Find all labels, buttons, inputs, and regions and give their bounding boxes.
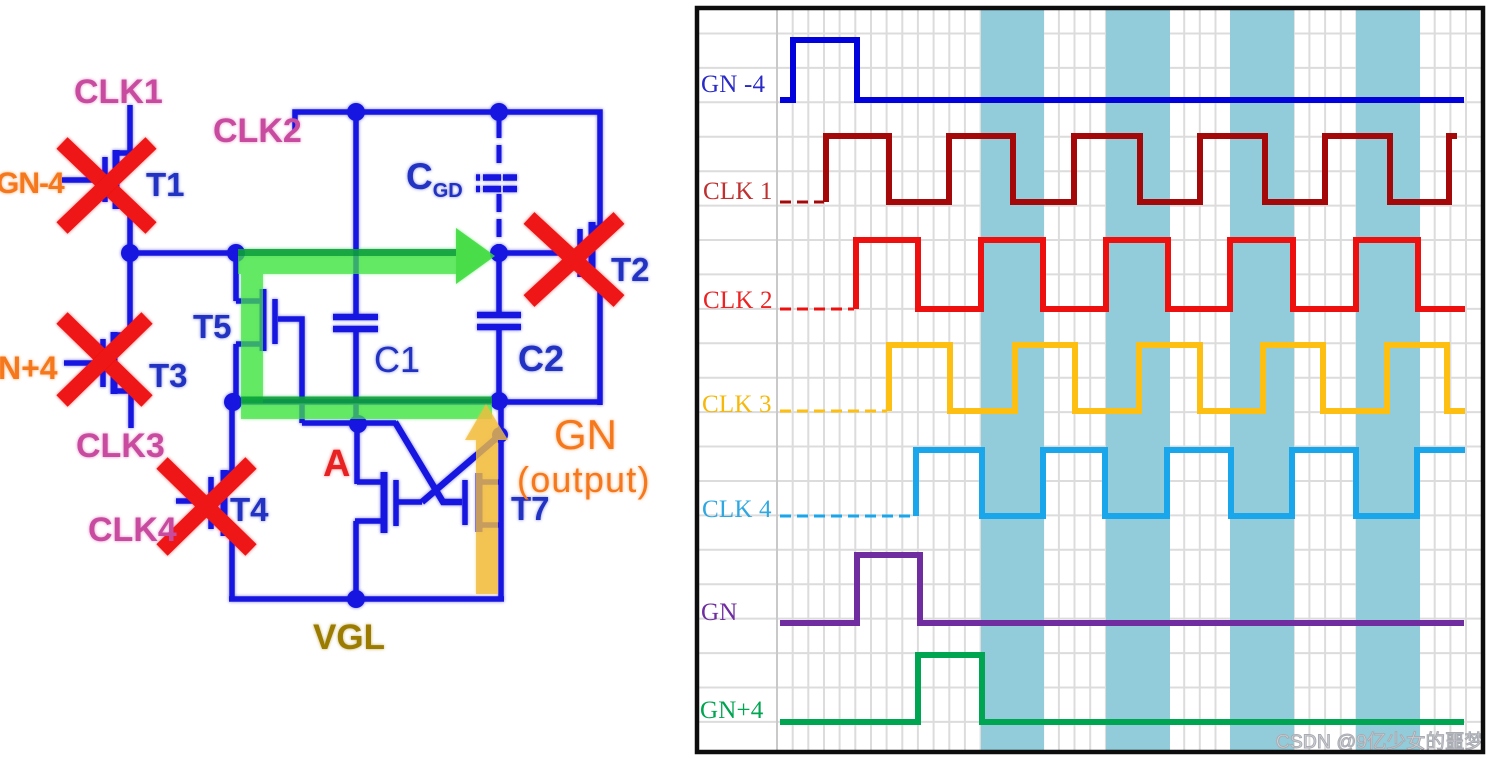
svg-text:C2: C2 (518, 338, 564, 379)
wire left column to T4 (229, 402, 235, 477)
node GN output (490, 392, 508, 410)
green highlight path (238, 256, 492, 419)
node top C1 (347, 103, 365, 121)
transistor T7 (476, 473, 483, 532)
node top CGD (490, 103, 508, 121)
transistor T1 (113, 150, 120, 209)
capacitor C1 top wire (353, 112, 359, 314)
svg-text:T4: T4 (230, 491, 269, 528)
capacitor CGD dashed wire top (497, 120, 502, 168)
GN-4 waveform (780, 40, 1464, 100)
wire T6 source to rail (353, 521, 359, 601)
node A (349, 415, 367, 433)
svg-text:GN -4: GN -4 (701, 71, 765, 98)
highlight bands (981, 10, 1044, 751)
svg-text:GN: GN (701, 599, 738, 626)
capacitor C2 top wire (496, 253, 502, 312)
panel border (697, 8, 1483, 752)
wire T1/T3 column (127, 253, 133, 336)
wire T3 gate stub (N+4) (64, 360, 100, 366)
capacitor C2 (477, 312, 521, 319)
transistor T4 (221, 470, 228, 536)
wire node row left (130, 250, 239, 256)
node CLK1/T1-T3 (121, 244, 139, 262)
CLK1 waveform (780, 201, 824, 204)
svg-text:T5: T5 (193, 308, 232, 345)
svg-text:CLK1: CLK1 (74, 73, 163, 111)
svg-text:CLK3: CLK3 (76, 427, 165, 465)
svg-text:CLK2: CLK2 (213, 112, 302, 150)
svg-text:N+4: N+4 (0, 350, 58, 386)
transistor T5 (260, 289, 267, 351)
red X over T4 (162, 463, 251, 550)
capacitor C1 (333, 314, 378, 321)
wire T4 to VGL rail (229, 533, 235, 601)
svg-text:T2: T2 (611, 251, 650, 288)
capacitor C1 bottom wire (353, 329, 359, 423)
svg-text:CLK 1: CLK 1 (703, 178, 773, 205)
wire node row to T2 gate (499, 250, 577, 256)
svg-text:T1: T1 (146, 166, 185, 203)
svg-text:T3: T3 (149, 357, 188, 394)
svg-text:GN-4: GN-4 (0, 167, 65, 200)
wire T1 to node row (127, 206, 133, 256)
svg-text:CLK4: CLK4 (88, 511, 177, 549)
wire C1 to T6 drain (354, 423, 360, 484)
wire T4 gate stub (CLK4) (176, 498, 208, 504)
red X over T2 (529, 218, 619, 301)
transistor T6 (381, 472, 388, 533)
wire T2 to output row (597, 278, 603, 405)
GN waveform (780, 555, 1464, 623)
svg-text:A: A (323, 443, 350, 485)
wire GN output column (498, 401, 504, 601)
svg-text:VGL: VGL (313, 618, 385, 657)
node left A row (224, 393, 242, 411)
wire T5 gate to node A row (278, 319, 302, 423)
wire CLK1 to T1 (127, 105, 133, 156)
wire diagonal node A to T7 gate (395, 422, 462, 502)
wire T6 gate stub (396, 499, 422, 505)
node T6 gate / GN output (492, 427, 508, 443)
svg-text:CLK 4: CLK 4 (702, 496, 772, 523)
yellow highlight arrow (465, 404, 508, 594)
CLK3 waveform (780, 410, 887, 413)
svg-text:CLK 2: CLK 2 (703, 287, 773, 314)
capacitor CGD (476, 174, 518, 181)
node VGL (347, 590, 365, 608)
capacitor CGD dashed wire bottom (497, 194, 502, 251)
transistor T2 (589, 222, 596, 284)
svg-text:CLK 3: CLK 3 (702, 391, 772, 418)
svg-text:CSDN @9亿少女的噩梦: CSDN @9亿少女的噩梦 (1276, 731, 1484, 753)
node T5 column (227, 244, 245, 262)
red X over T1 (62, 143, 151, 228)
wire node to T5 column (233, 253, 239, 301)
CLK2 waveform (780, 308, 854, 311)
wire T1 gate stub (GN-4) (62, 177, 102, 183)
capacitor C2 bottom wire (496, 327, 502, 403)
wire T3 to CLK3 (128, 391, 134, 428)
wire diagonal T6 gate to GN output (422, 435, 500, 502)
transistor T3 (111, 332, 118, 394)
svg-text:C1: C1 (374, 339, 420, 380)
wire row y=402 (233, 399, 600, 405)
wire node A horizontal (302, 420, 396, 426)
GN+4 waveform (780, 655, 1464, 722)
CLK4 waveform (780, 515, 914, 518)
svg-text:GN+4: GN+4 (700, 697, 764, 724)
svg-text:(output): (output) (517, 459, 651, 500)
red X over T3 (62, 318, 147, 401)
wire VGL rail (229, 596, 504, 602)
timing grid (699, 10, 1481, 751)
wire T5 to node (233,402) (233, 344, 239, 405)
wire top CLK2 rail (295, 112, 600, 231)
node CGD/C2/T2 gate (490, 244, 508, 262)
svg-text:GN: GN (554, 411, 617, 458)
